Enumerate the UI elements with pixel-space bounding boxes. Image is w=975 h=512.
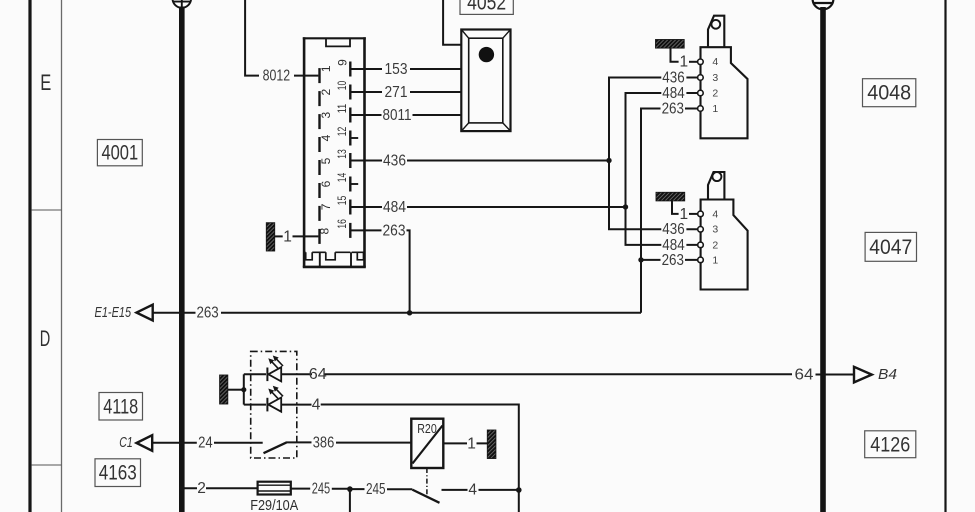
border row divider E/D xyxy=(32,209,62,211)
ground hatched bar at flasher unit xyxy=(220,375,228,404)
svg-text:386: 386 xyxy=(313,434,335,451)
wire 245 fuse to junction xyxy=(291,488,348,490)
wire 484 branch to lamp 4047 pin 2 xyxy=(626,207,698,245)
lamp 4047 terminal circle pin 3 xyxy=(698,227,704,233)
pin 16 contact bar xyxy=(349,223,351,238)
svg-text:4052: 4052 xyxy=(467,0,506,15)
lamp 4048 terminal circle pin 1 xyxy=(698,106,704,112)
wire 8012 into pin 1 xyxy=(294,75,318,77)
pin 12 stub xyxy=(350,137,358,139)
connector arrow E1-E15 xyxy=(137,305,153,321)
connector U4001 top keying notch xyxy=(326,39,350,46)
svg-text:263: 263 xyxy=(196,305,218,322)
wire 4 from LED 2 with corner down xyxy=(281,405,519,512)
connector U4001 right wall xyxy=(363,37,366,267)
ground G1 hatched bar at pin 8 xyxy=(266,223,274,251)
svg-text:64: 64 xyxy=(795,366,814,383)
connector U4001 bottom castellation divider 1 xyxy=(319,252,321,267)
svg-text:245: 245 xyxy=(312,481,330,498)
svg-text:15: 15 xyxy=(335,196,349,206)
LED 1 triangle xyxy=(268,367,281,381)
LED 2 triangle xyxy=(268,398,281,412)
svg-text:14: 14 xyxy=(335,173,349,183)
wire 1 into pin 8 xyxy=(293,235,319,237)
switch unit 4052 button dot xyxy=(479,47,494,62)
bolt terminal symbol on right bus xyxy=(813,0,834,9)
svg-text:153: 153 xyxy=(385,61,408,78)
connector U4001 bottom castellation notch B xyxy=(326,252,335,259)
pin 7 contact bar xyxy=(318,206,320,221)
switch unit 4052 bevel corner lines xyxy=(461,30,510,132)
junction dot 245 xyxy=(347,486,353,492)
junction dot LED ground branch xyxy=(241,387,246,392)
connector arrow B4 xyxy=(854,367,872,383)
svg-text:1: 1 xyxy=(467,435,476,452)
bolt terminal symbol on left bus xyxy=(173,0,192,8)
wire 271 pin10 to switch 4052 xyxy=(351,91,461,93)
component label box 4048 xyxy=(863,79,916,107)
pin 14 stub xyxy=(350,183,358,185)
pin 10 contact bar xyxy=(349,85,351,100)
LED 1 emission arrows xyxy=(272,359,284,369)
wire 263 long run to E1-E15 xyxy=(153,312,641,314)
svg-text:12: 12 xyxy=(335,127,349,137)
wire 245 junction to switch xyxy=(352,488,412,490)
wire 1 from relay R20 to ground xyxy=(443,442,487,444)
svg-text:1: 1 xyxy=(319,65,333,72)
junction dot wire 2 at left bus xyxy=(179,486,185,492)
pin 11 contact bar xyxy=(349,108,351,123)
svg-text:4126: 4126 xyxy=(870,433,910,456)
junction dot 484 xyxy=(623,204,628,209)
svg-text:3: 3 xyxy=(712,224,718,236)
wire into LED 1 xyxy=(244,373,266,375)
switch blade bottom open contact xyxy=(412,490,439,503)
lamp 4047 tab hole xyxy=(712,172,721,181)
wire 64 from LED 1 xyxy=(281,373,792,375)
svg-text:D: D xyxy=(40,326,51,351)
svg-text:2: 2 xyxy=(319,88,333,95)
svg-text:271: 271 xyxy=(385,84,408,101)
svg-text:4: 4 xyxy=(312,397,321,414)
ground hatched bar at relay R20 xyxy=(487,430,496,459)
svg-text:2: 2 xyxy=(197,480,206,497)
svg-text:2: 2 xyxy=(712,239,718,251)
pin 1 contact bar xyxy=(318,68,320,83)
svg-text:8012: 8012 xyxy=(263,68,291,85)
component label box 4001 xyxy=(97,140,142,166)
svg-text:5: 5 xyxy=(319,157,333,164)
switch unit 4052 inner face xyxy=(469,38,503,123)
component label box 4118 xyxy=(99,393,143,421)
junction dot 436 xyxy=(606,158,611,163)
component label box 4126 xyxy=(865,431,916,458)
wire 1 into lamp 4048 pin 4 xyxy=(689,61,698,63)
svg-text:13: 13 xyxy=(335,149,349,159)
wire 24 from C1 arrow xyxy=(152,442,263,444)
svg-text:484: 484 xyxy=(662,85,685,102)
wire 484 pin15 to junction xyxy=(351,206,625,208)
svg-text:2: 2 xyxy=(712,87,718,99)
svg-text:4048: 4048 xyxy=(867,82,911,105)
riser from 245 junction to bottom edge xyxy=(349,489,351,512)
svg-text:3: 3 xyxy=(319,111,333,118)
svg-text:8011: 8011 xyxy=(383,107,412,124)
svg-text:3: 3 xyxy=(712,72,718,84)
wire 4052 feed riser to top edge xyxy=(443,0,461,45)
wire 1 into lamp 4047 pin 4 xyxy=(689,213,698,215)
svg-text:4: 4 xyxy=(468,482,477,499)
wire 436 branch to lamp 4048 pin 3 xyxy=(609,78,698,161)
relay R20 box xyxy=(411,419,443,468)
ground hatched bar for lamp 4048 xyxy=(656,40,685,49)
connector U4001 bottom edge xyxy=(303,266,366,269)
LED branch vertical xyxy=(243,374,245,404)
pin 8 contact bar xyxy=(318,229,320,244)
pin 14 contact bar xyxy=(349,177,351,192)
svg-text:4001: 4001 xyxy=(101,142,138,165)
switch unit 4052 outer body xyxy=(461,30,510,132)
svg-text:1: 1 xyxy=(679,54,688,71)
svg-text:436: 436 xyxy=(662,221,684,238)
lamp 4047 body outline xyxy=(701,200,748,290)
connector U4001 bottom castellation notch A xyxy=(306,252,313,259)
ground stem to lamp 4047 pin 4 xyxy=(672,201,679,214)
lamp 4048 body outline xyxy=(701,47,748,138)
svg-text:R20: R20 xyxy=(417,422,437,436)
pin 6 contact bar xyxy=(318,183,320,198)
svg-text:4163: 4163 xyxy=(99,462,137,485)
wire 64 right segment to arrow B4 xyxy=(816,374,855,376)
junction dot 4 at riser xyxy=(516,487,522,493)
svg-text:24: 24 xyxy=(198,435,213,452)
svg-text:245: 245 xyxy=(366,481,386,498)
svg-text:1: 1 xyxy=(283,228,292,245)
svg-text:11: 11 xyxy=(335,104,349,114)
svg-text:64: 64 xyxy=(309,366,327,383)
svg-text:484: 484 xyxy=(383,199,406,216)
wire 263 from lamp 4048 pin 1 down xyxy=(641,109,698,313)
svg-text:4047: 4047 xyxy=(869,236,912,259)
wire into LED 2 xyxy=(244,404,266,406)
component label box 4163 xyxy=(95,459,141,487)
ground stem to LED branch xyxy=(228,389,242,391)
svg-text:1: 1 xyxy=(712,254,718,266)
lamp 4047 terminal circle pin 2 xyxy=(698,242,704,248)
ground bus bar left (battery earth strap) xyxy=(179,7,185,512)
pin 12 contact bar xyxy=(349,131,351,146)
fuse F29 body xyxy=(258,482,291,495)
junction dot 263 at lamp 4047 xyxy=(638,257,643,262)
wire 2 from left bus to fuse xyxy=(185,487,258,489)
svg-text:263: 263 xyxy=(662,252,684,269)
border left thin frame line xyxy=(61,0,63,512)
flasher unit 4118 dash-dot enclosure xyxy=(251,351,297,458)
svg-text:C1: C1 xyxy=(119,434,133,451)
LED 2 emission arrows xyxy=(272,389,284,399)
pin 3 contact bar xyxy=(318,114,320,129)
wire 8011 pin11 to switch 4052 xyxy=(351,114,461,116)
connector U4001 bottom castellation inner line xyxy=(305,251,364,253)
svg-text:9: 9 xyxy=(336,59,350,66)
lamp 4047 mounting tab xyxy=(708,172,724,200)
lamp 4048 tab hole xyxy=(711,20,720,29)
svg-text:263: 263 xyxy=(383,222,406,239)
pin 5 contact bar xyxy=(318,160,320,175)
svg-text:F29/10A: F29/10A xyxy=(250,497,298,512)
svg-text:E: E xyxy=(40,70,51,95)
connector U4001 bottom castellation divider 2 xyxy=(350,252,352,267)
LED 2 cathode bar xyxy=(266,398,268,412)
svg-text:16: 16 xyxy=(335,219,349,229)
wire 436 branch to lamp 4047 pin 3 xyxy=(609,161,698,230)
wire 436 pin13 to junction xyxy=(351,160,609,162)
lamp 4048 terminal circle pin 2 xyxy=(698,90,704,96)
border row divider D/bottom xyxy=(32,464,62,466)
fuse F29 inner lines xyxy=(258,485,291,491)
wire 386 from switch to relay R20 xyxy=(286,441,411,443)
wire 263 pin16 with corner down xyxy=(351,230,409,312)
wire 4 from switch to riser junction xyxy=(442,489,517,491)
border left thick frame line xyxy=(28,0,31,512)
svg-text:4: 4 xyxy=(712,56,718,68)
svg-text:436: 436 xyxy=(662,69,684,86)
svg-text:436: 436 xyxy=(383,152,406,169)
connector U4001 bottom castellation notch C xyxy=(357,252,363,259)
pin 9 contact bar xyxy=(349,62,351,77)
relay R20 diagonal xyxy=(413,426,443,464)
lamp 4048 terminal circle pin 4 xyxy=(698,59,704,65)
svg-text:6: 6 xyxy=(319,180,333,187)
connector U4001 top edge xyxy=(303,37,366,39)
mechanical link dash-dot from relay to switch xyxy=(426,468,428,497)
wire 263 branch to lamp 4047 pin 1 xyxy=(641,259,698,261)
svg-text:8: 8 xyxy=(318,228,332,235)
wire 484 branch to lamp 4048 pin 2 xyxy=(626,93,698,207)
component label box 4047 xyxy=(865,232,916,261)
component label box 4052 xyxy=(460,0,513,14)
right border frame line xyxy=(944,0,946,512)
svg-text:1: 1 xyxy=(712,103,718,115)
lamp 4047 terminal circle pin 1 xyxy=(698,257,704,263)
svg-text:4: 4 xyxy=(712,208,718,220)
svg-text:B4: B4 xyxy=(878,367,897,383)
connector arrow C1 xyxy=(137,435,153,451)
lamp 4047 terminal circle pin 4 xyxy=(698,211,704,217)
pin 4 contact bar xyxy=(318,137,320,152)
ground stem to lamp 4048 pin 4 xyxy=(671,48,679,62)
wire 153 pin9 to switch 4052 xyxy=(351,68,461,70)
pin 15 contact bar xyxy=(349,200,351,215)
connector U4001 left wall xyxy=(303,37,306,267)
ground bus bar right xyxy=(820,7,826,512)
svg-text:E1-E15: E1-E15 xyxy=(95,305,132,321)
lamp 4048 mounting tab xyxy=(708,16,724,48)
wire 8012 riser to top edge xyxy=(245,0,259,76)
svg-text:4118: 4118 xyxy=(103,395,138,418)
pin 2 contact bar xyxy=(318,91,320,106)
pin 13 contact bar xyxy=(349,153,351,168)
lamp 4048 terminal circle pin 3 xyxy=(698,75,704,81)
junction dot 263 long run xyxy=(407,310,412,315)
ground stem to wire 1 xyxy=(275,235,283,237)
LED 1 cathode bar xyxy=(266,368,268,382)
svg-text:4: 4 xyxy=(319,134,333,141)
svg-text:263: 263 xyxy=(662,100,684,117)
svg-text:10: 10 xyxy=(335,81,349,91)
svg-text:7: 7 xyxy=(319,203,333,210)
ground hatched bar for lamp 4047 xyxy=(656,192,685,201)
switch blade in flasher unit xyxy=(264,442,287,453)
